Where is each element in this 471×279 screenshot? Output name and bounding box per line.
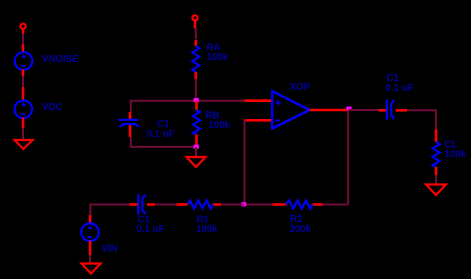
wire C3 to CL corner bbox=[407, 110, 436, 129]
pin C1 top bbox=[129, 112, 132, 119]
wire CL to ground bbox=[435, 175, 437, 184]
pin RA bottom bbox=[195, 72, 198, 79]
svg-text:100k: 100k bbox=[207, 52, 229, 63]
ground (below RB) bbox=[187, 157, 206, 167]
junction node4 (output) bbox=[346, 107, 351, 111]
pin VDC top bbox=[22, 87, 25, 101]
pin CL top bbox=[435, 129, 438, 142]
pin C2 right bbox=[147, 203, 155, 206]
ground (below VDC) bbox=[15, 140, 33, 149]
wire - input down to node3 bbox=[244, 119, 246, 204]
wire VDC to ground bbox=[22, 128, 24, 140]
capacitor C1 (0.1 nF) bbox=[118, 120, 138, 127]
pin VNOISE top bbox=[22, 45, 25, 54]
pin VNOISE bottom bbox=[22, 70, 25, 77]
wire node2 to ground bbox=[195, 147, 197, 157]
junction node1 bbox=[194, 98, 199, 102]
resistor RA bbox=[192, 46, 199, 72]
wire R2 to node3 bbox=[244, 204, 273, 206]
capacitor C3 (C1 0.1 uF) bbox=[387, 99, 394, 119]
wire VIN to ground bbox=[89, 255, 91, 263]
pin R2 left bbox=[273, 203, 286, 206]
wire port P2 to RA bbox=[195, 29, 197, 40]
svg-text:XOP: XOP bbox=[290, 82, 311, 93]
wire RA to node1 bbox=[195, 79, 197, 101]
svg-text:0.1 uF: 0.1 uF bbox=[386, 83, 414, 94]
wire port P1 to VNOISE bbox=[22, 34, 24, 45]
pin op-amp - input bbox=[245, 119, 272, 122]
pin C1 bottom bbox=[129, 125, 132, 137]
wire C1 loop left vertical (top) bbox=[130, 100, 132, 112]
svg-text:100k: 100k bbox=[196, 224, 218, 235]
pin op-amp output bbox=[310, 109, 350, 112]
pin op-amp + input bbox=[245, 99, 272, 102]
pin CL bottom bbox=[435, 167, 438, 175]
wire R1 to C2 bbox=[155, 204, 177, 206]
resistor CL bbox=[433, 142, 440, 167]
ground (below CL) bbox=[426, 185, 446, 196]
ground (below VIN) bbox=[82, 264, 101, 274]
svg-text:VDC: VDC bbox=[42, 102, 62, 113]
source VNOISE bbox=[15, 52, 33, 70]
pin VIN bottom bbox=[89, 241, 92, 255]
resistor RB bbox=[193, 110, 200, 135]
wire C1 loop left vertical (bottom) bbox=[130, 137, 132, 148]
wire C1 loop bottom horizontal bbox=[131, 146, 196, 148]
source VDC bbox=[14, 101, 32, 119]
pin VDC bottom bbox=[22, 118, 25, 129]
resistor R1 bbox=[187, 200, 213, 208]
pin RB top bbox=[195, 101, 198, 110]
pin VIN top bbox=[89, 215, 92, 224]
pin C3 left bbox=[379, 109, 387, 112]
resistor R2 bbox=[286, 200, 313, 208]
pin R1 right bbox=[213, 203, 221, 206]
terminal port P1 (top of VNOISE chain) bbox=[20, 24, 25, 34]
svg-text:VNOISE: VNOISE bbox=[42, 54, 79, 65]
pin C2 left bbox=[130, 203, 138, 206]
svg-text:100k: 100k bbox=[209, 120, 231, 131]
junction node2 (RB bottom / C1 loop / ground) bbox=[194, 145, 199, 149]
source VIN bbox=[81, 223, 99, 241]
pin C3 right bbox=[396, 109, 407, 112]
svg-text:200k: 200k bbox=[290, 224, 312, 235]
wire C2 to VIN corner bbox=[90, 205, 129, 216]
svg-text:0.1 nF: 0.1 nF bbox=[147, 129, 175, 140]
wire feedback bottom to R2 bbox=[323, 204, 349, 206]
junction node3 (inverting input / R1 / R2) bbox=[241, 202, 246, 206]
pin R1 left bbox=[177, 203, 188, 206]
pin RB bottom bbox=[195, 135, 198, 147]
terminal port P2 (top of RA) bbox=[192, 15, 197, 28]
wire VNOISE to VDC bbox=[22, 76, 24, 87]
pin RA top bbox=[195, 40, 198, 46]
wire node3 to R1 bbox=[221, 204, 244, 206]
capacitor C2 (C1 0.1 uF) bbox=[138, 194, 145, 214]
wire output to C3 bbox=[349, 109, 379, 111]
op-amp XOP bbox=[272, 91, 309, 129]
svg-text:100k: 100k bbox=[445, 149, 467, 160]
wire node1 left to C1 loop corner bbox=[131, 100, 196, 102]
svg-text:VIN: VIN bbox=[102, 244, 118, 255]
wire node1 right toward op-amp bbox=[196, 100, 245, 102]
wire feedback vertical (output down) bbox=[347, 110, 349, 205]
svg-text:0.1 uF: 0.1 uF bbox=[137, 224, 165, 235]
pin R2 right bbox=[313, 203, 323, 206]
